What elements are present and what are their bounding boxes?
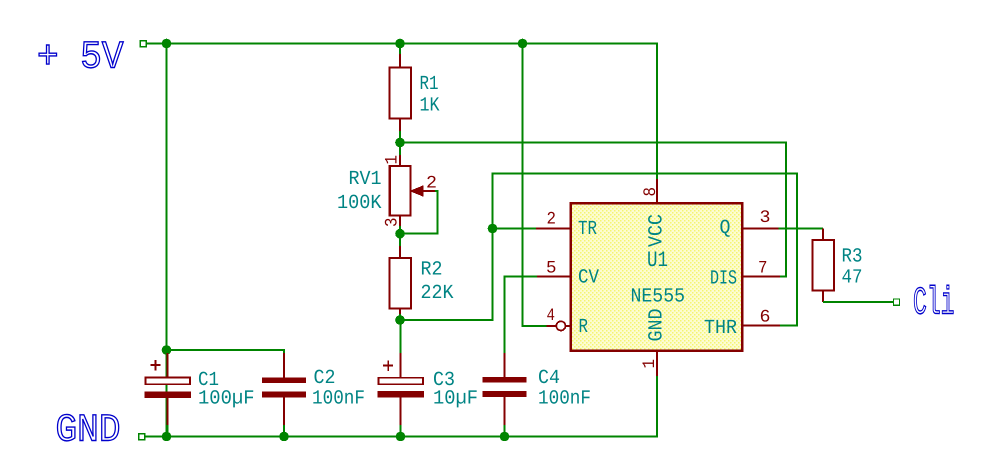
capacitor C4 — [483, 353, 527, 437]
node A junction R1/RV1/DIS — [395, 138, 405, 148]
pin 1 GND — [640, 309, 669, 377]
svg-text:R1: R1 — [420, 73, 439, 96]
wire node A to DIS — [400, 143, 786, 277]
svg-text:7: 7 — [758, 259, 768, 279]
wire left vertical +5V rail — [166, 44, 168, 437]
svg-text:GND: GND — [56, 409, 121, 453]
wire Q to R3 — [779, 227, 824, 229]
resistor R3 — [813, 228, 835, 302]
pin 2 TR — [536, 210, 597, 242]
svg-text:22K: 22K — [421, 282, 454, 305]
svg-text:100µF: 100µF — [198, 388, 255, 411]
svg-text:10µF: 10µF — [433, 388, 478, 411]
svg-text:Cli: Cli — [913, 282, 955, 326]
pin 4 R with inversion bubble — [547, 306, 589, 339]
wire R3 to Cli — [823, 301, 894, 303]
svg-text:R3: R3 — [842, 246, 863, 269]
pin 7 DIS — [710, 259, 780, 291]
junction top x522 — [518, 39, 528, 49]
svg-text:100nF: 100nF — [312, 388, 365, 411]
svg-text:U1: U1 — [647, 248, 668, 273]
junction GND C3 — [396, 432, 406, 442]
wire CV to C4 — [505, 277, 538, 354]
resistor R1 — [390, 44, 412, 143]
svg-text:100nF: 100nF — [538, 388, 591, 411]
svg-text:GND: GND — [646, 309, 669, 342]
svg-text:8: 8 — [641, 187, 661, 197]
svg-text:VCC: VCC — [646, 214, 669, 247]
svg-text:THR: THR — [704, 317, 737, 340]
wire RV1 wiper loop — [404, 191, 438, 234]
svg-text:CV: CV — [578, 267, 599, 290]
svg-text:100K: 100K — [337, 192, 382, 215]
junction TR — [488, 224, 498, 234]
svg-text:3: 3 — [383, 218, 403, 228]
wire VCC to reset pin — [523, 44, 547, 326]
svg-text:+ 5V: + 5V — [37, 36, 124, 80]
power flag square +5V — [140, 41, 146, 47]
capacitor C2 — [262, 353, 306, 437]
svg-text:R2: R2 — [421, 259, 443, 282]
junction GND C1 — [162, 432, 172, 442]
junction top R1 — [395, 39, 405, 49]
svg-text:3: 3 — [760, 208, 771, 228]
power flag square GND — [139, 434, 145, 440]
label square Cli — [894, 299, 900, 305]
capacitor C3 polarized — [378, 320, 425, 437]
resistor R2 — [390, 234, 412, 320]
svg-text:NE555: NE555 — [631, 286, 686, 309]
svg-text:5: 5 — [546, 259, 557, 279]
junction top-left — [162, 39, 172, 49]
node C junction R2/C3/TR/THR — [395, 315, 405, 325]
svg-text:6: 6 — [760, 308, 771, 328]
svg-text:1: 1 — [383, 155, 403, 165]
wire top +5V rail — [146, 44, 657, 180]
pin 3 Q — [720, 208, 779, 240]
svg-text:1: 1 — [640, 359, 660, 369]
svg-text:4: 4 — [547, 306, 556, 326]
wire node C to THR — [400, 174, 797, 326]
svg-text:Q: Q — [720, 217, 731, 240]
wire TR — [493, 228, 537, 230]
node B junction RV1 wiper — [395, 229, 405, 239]
pin 8 VCC — [641, 179, 669, 247]
svg-text:2: 2 — [547, 210, 557, 230]
wire C1 to C2 — [167, 350, 285, 353]
junction C1 top — [162, 345, 172, 355]
svg-text:R: R — [579, 316, 589, 339]
svg-text:RV1: RV1 — [349, 168, 382, 191]
op-amp U1 NE555 body — [571, 203, 743, 350]
junction GND C4 — [500, 432, 510, 442]
junction GND C2 — [279, 432, 289, 442]
pin 6 THR — [704, 308, 780, 341]
svg-text:TR: TR — [578, 218, 597, 241]
potentiometer RV1 — [390, 143, 436, 234]
pin 5 CV — [537, 259, 599, 290]
svg-text:DIS: DIS — [710, 268, 737, 291]
ground rail wire — [145, 376, 658, 437]
svg-text:47: 47 — [842, 267, 863, 290]
capacitor C1 polarized — [145, 350, 192, 437]
svg-text:1K: 1K — [420, 95, 440, 118]
